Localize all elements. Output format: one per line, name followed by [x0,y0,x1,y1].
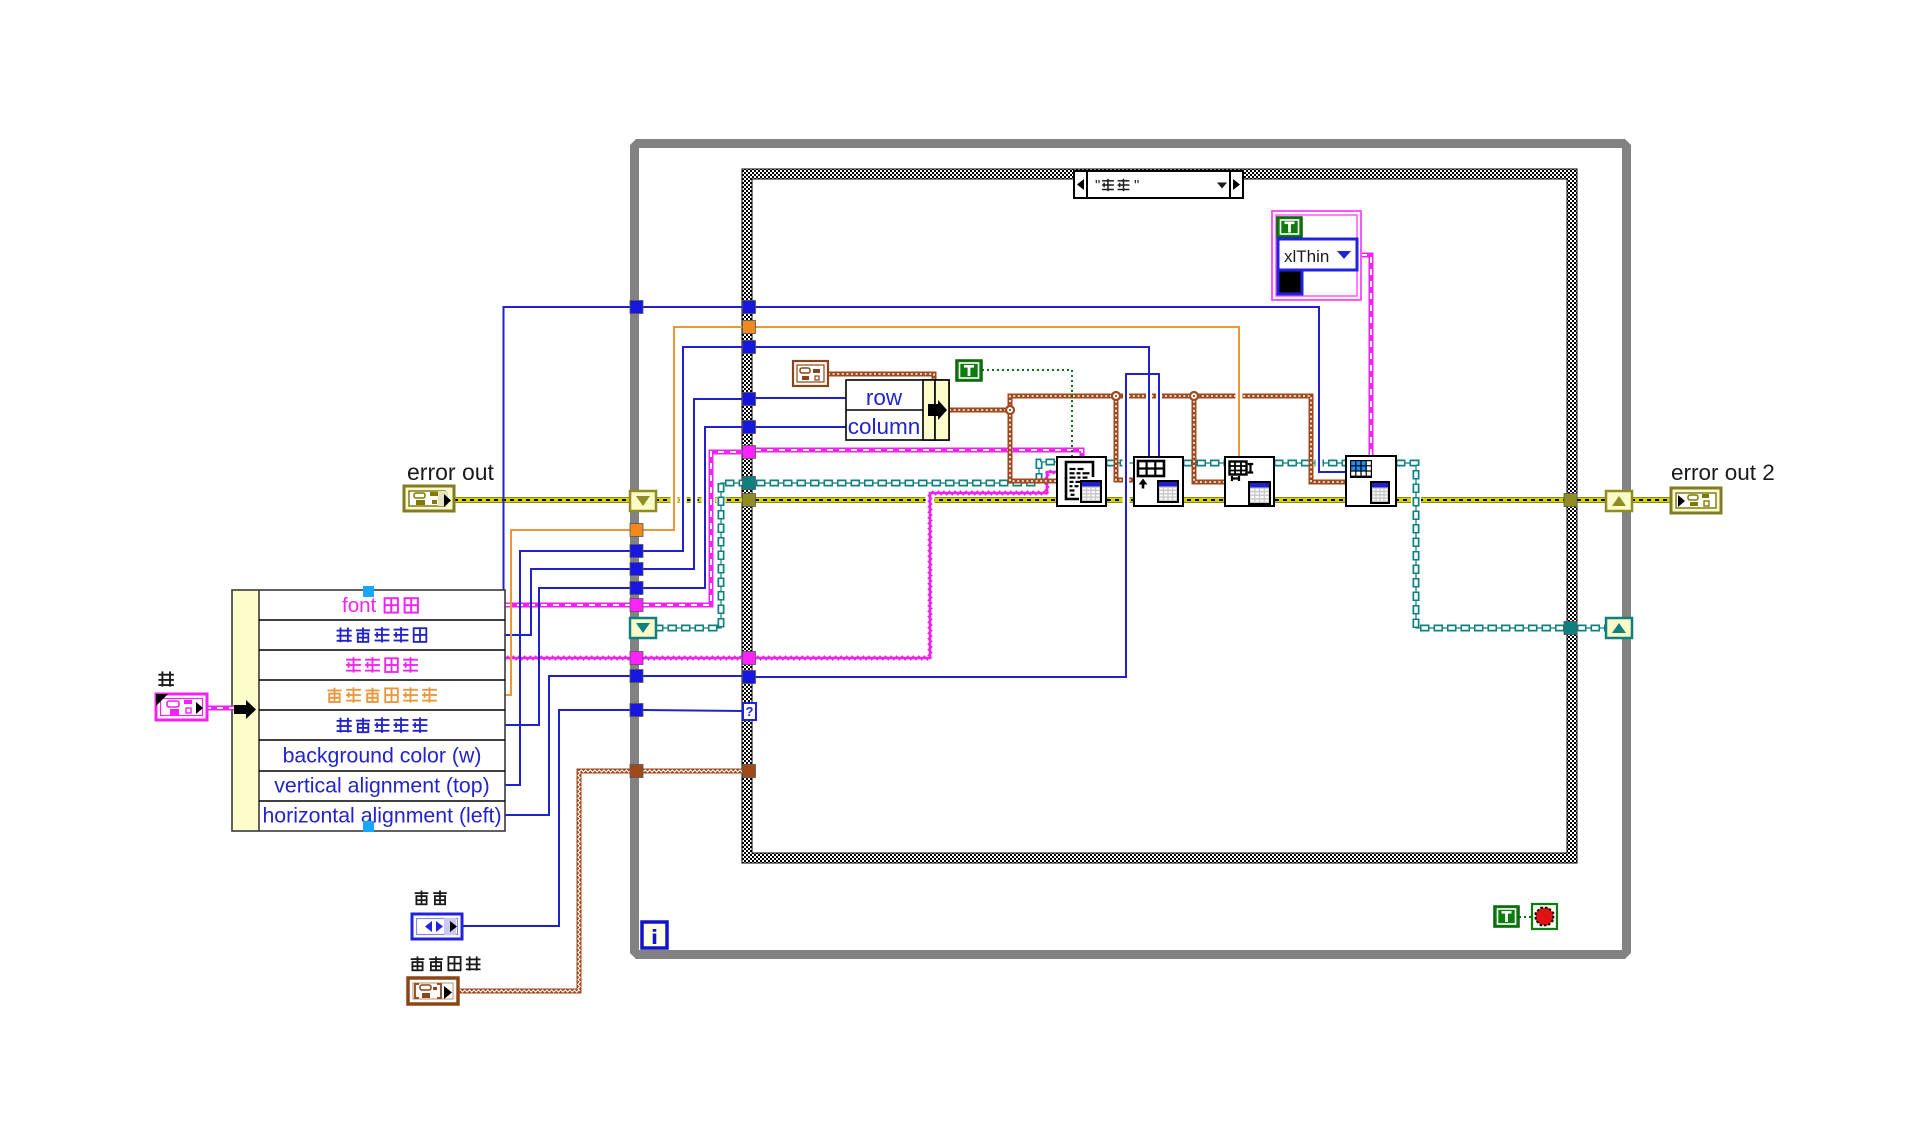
loop tunnel blue y551 [630,545,643,558]
boolean constant T (stop) [1494,906,1519,927]
case tunnel orange y327 [743,321,756,334]
shift register error left [630,491,656,511]
case tunnel blue y677 [743,671,756,684]
case ? tunnel (unwired) [743,703,756,720]
case tunnel teal right y628 [1564,622,1577,635]
loop tunnel blue y710 [630,704,643,717]
svg-text:xlThin: xlThin [1284,247,1329,266]
loop condition terminal (stop button) [1532,904,1557,929]
wire crossing gaps over refnum chain [1123,458,1130,469]
case tunnel blue y307 [743,301,756,314]
wire boolean T to VI (green dotted) [982,370,1072,456]
enum control 枚举 [412,890,462,939]
shift register refnum left [630,618,656,638]
wire adjust table width row4 -> icon3 top (orange) [505,530,631,695]
svg-text:horizontal alignment (left): horizontal alignment (left) [262,804,501,828]
loop iteration terminal i [642,922,667,948]
wire select write row row2 -> bundle row (blue) [505,569,631,635]
svg-text:background color (w): background color (w) [283,744,482,768]
error out 2 indicator [1671,460,1775,513]
bundle node row/column [846,380,949,440]
while loop [630,139,1631,959]
case tunnel error y500 [743,494,756,507]
wire crossing gaps over error wire [671,494,678,507]
wire vertical alignment row7 -> icon2 top (blue) [505,551,631,785]
wire write content string (magenta) [505,657,631,660]
Excel VI icon 2 (insert rows) [1134,457,1183,506]
error out indicator [404,459,495,511]
loop tunnel blue y676 [630,670,643,683]
selection handles [363,586,374,597]
unbundle input arrow [234,700,256,719]
wire enum -> case ? tunnel (blue) [462,710,631,926]
svg-text:row: row [866,385,903,410]
wire range cluster constant to bundle [828,374,934,382]
wire font format cluster (magenta dashed) [505,603,631,608]
case tunnel blue y399 [743,393,756,406]
svg-text:error out: error out [407,459,495,485]
Excel VI icon 1 (write report) [1057,457,1106,506]
wire merge position array (brown) [458,771,631,991]
wire bundle output to Excel VIs (brown) [949,396,1346,482]
wire select write column row5 -> bundle column (blue) [505,588,631,725]
Excel VI icon 3 (set column width) [1225,457,1274,506]
wire boolean T to loop stop (green dotted) [1519,916,1532,918]
loop tunnel blue y307 [630,301,643,314]
svg-text:column: column [848,414,921,439]
svg-text:?: ? [746,704,754,719]
wire crossing gaps over cluster wire [1123,390,1129,402]
loop tunnel magenta y605 [630,599,643,612]
svg-text:vertical alignment (top): vertical alignment (top) [274,774,489,798]
case structure [742,169,1577,863]
Excel VI icon 4 (set cell color) [1346,456,1396,506]
unbundle by name node [232,586,505,832]
case selector label "写入" [1074,171,1243,198]
shift register refnum right [1606,618,1632,638]
loop tunnel brown y771 [630,765,643,778]
loop tunnel blue y569 [630,563,643,576]
svg-text:": " [1095,177,1100,194]
loop tunnel blue y588 [630,582,643,595]
loop tunnel magenta y658 [630,652,643,665]
wire xlThin border cluster (magenta dashed) [1361,255,1371,456]
cluster control 簇 [156,671,234,720]
svg-text:error out 2: error out 2 [1671,460,1775,485]
case tunnel blue y427 [743,421,756,434]
shift register error right [1606,491,1632,511]
case tunnel blue y347 [743,341,756,354]
wire error (yellow/black) [454,497,631,503]
cluster constant (range) [793,361,828,386]
boolean constant T (case) [956,360,982,381]
wire horizontal alignment row8 -> icon2 top (blue) [505,676,631,815]
case tunnel brown y771 [743,765,756,778]
svg-text:font: font [342,594,376,617]
wire Excel refnum chain (teal) [654,483,749,628]
wire background color row6 -> icon4 left (blue) [504,307,632,755]
loop tunnel orange y530 [630,524,643,537]
case tunnel magenta y452 [743,446,756,459]
junction nodes (brown) [1006,406,1014,414]
svg-text:": " [1134,177,1139,194]
case tunnel error right y500 [1564,494,1577,507]
case tunnel magenta y658 [743,652,756,665]
array control 合并位置 [408,956,481,1004]
case tunnel teal y483 [743,477,756,490]
xlThin constant cluster [1272,211,1361,300]
